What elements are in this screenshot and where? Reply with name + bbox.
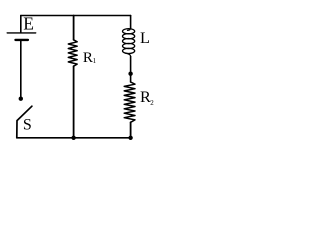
svg-text:E: E [23,13,34,33]
resistor R2 [124,82,135,122]
switch S [17,106,32,138]
label E [23,13,34,33]
node L R2 junction [128,72,132,76]
node bottom right junction [128,136,132,140]
wire R2 bottom lead [130,122,132,138]
wire R1 top lead [73,16,75,40]
wire top [21,15,131,17]
label R2 [140,88,154,107]
svg-text:L: L [140,29,150,47]
wire bottom [17,137,131,139]
label S [23,116,32,133]
svg-text:S: S [23,116,32,133]
label R1 [83,50,97,66]
node switch terminal [19,97,23,101]
svg-text:2: 2 [150,99,154,107]
label L [140,29,150,47]
wire battery to switch [20,41,22,97]
resistor R1 [68,40,77,66]
battery E [7,33,36,40]
wire R1 bottom lead [73,66,75,138]
inductor L [123,28,135,57]
svg-text:1: 1 [93,57,97,65]
wire L top lead [130,16,132,28]
node R1 bottom junction [71,136,75,140]
wire battery top lead [20,16,22,33]
wire L to R2 [130,57,132,83]
svg-text:R: R [83,50,93,66]
